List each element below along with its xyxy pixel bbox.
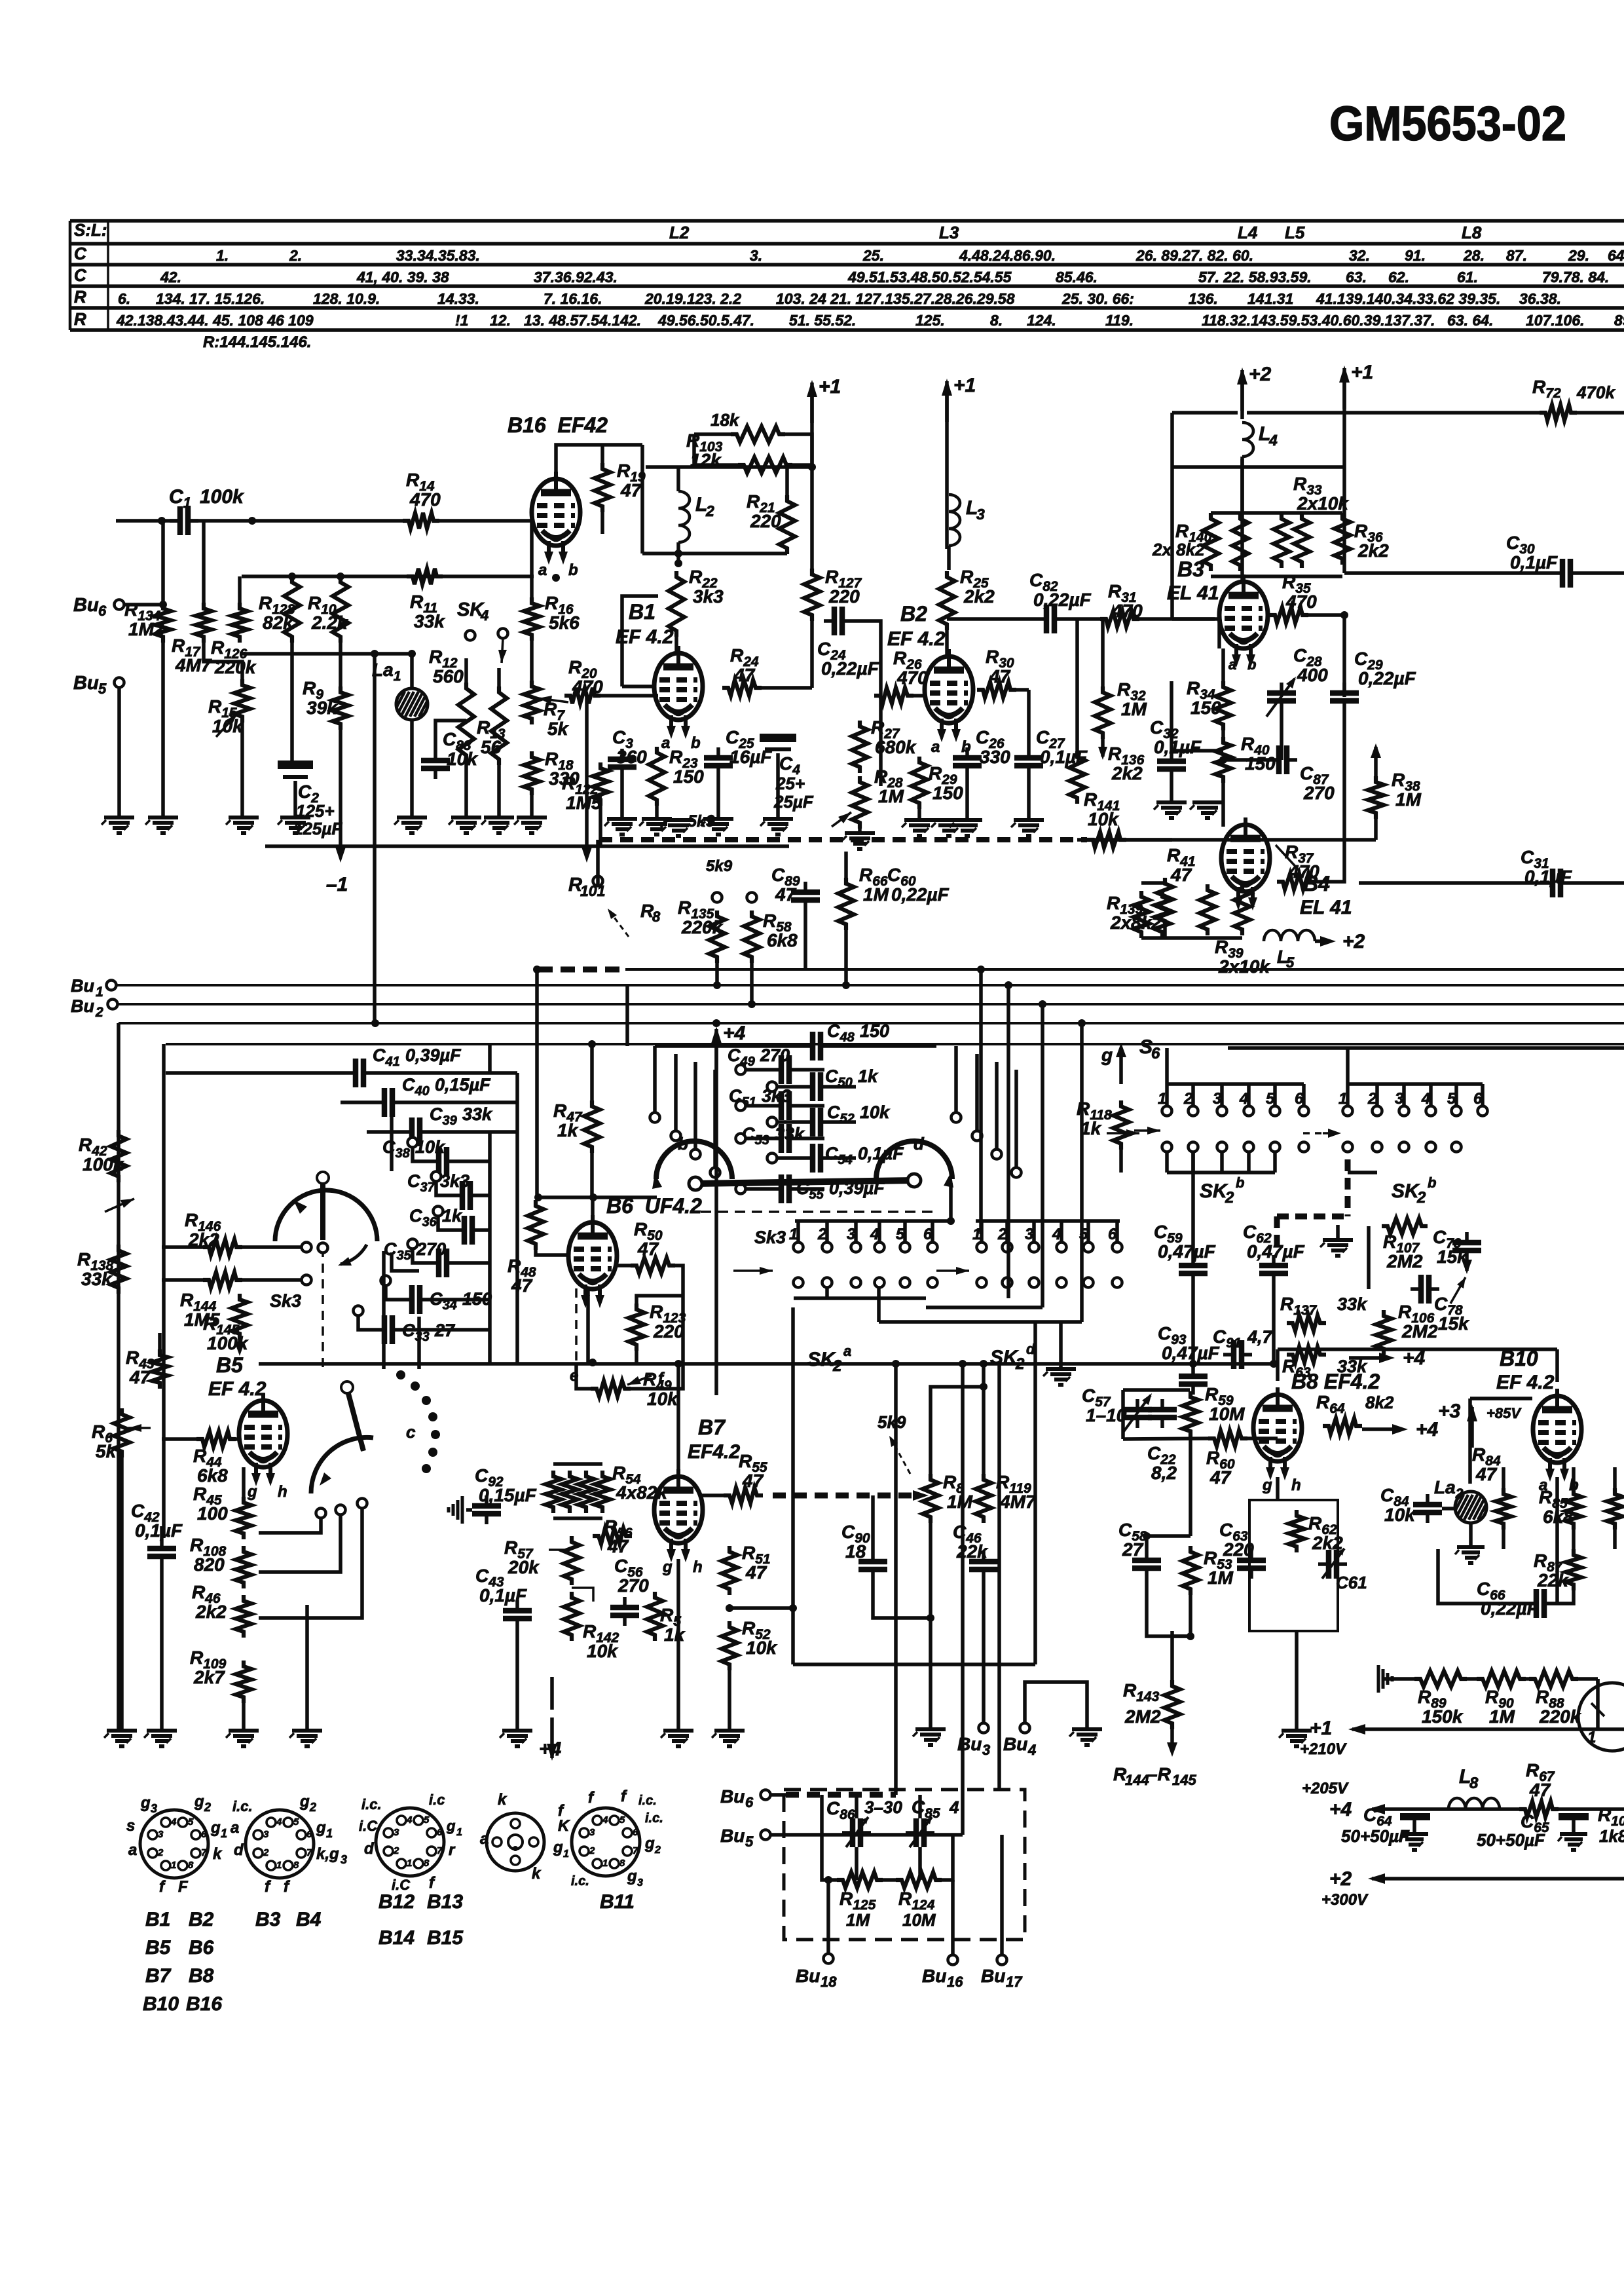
resistor R139a (1134, 891, 1149, 938)
power +1 rail (1348, 1724, 1477, 1735)
svg-text:3: 3 (637, 1877, 643, 1888)
svg-text:8,2: 8,2 (1151, 1463, 1177, 1483)
svg-text:107.106.: 107.106. (1526, 312, 1585, 329)
wire vert x1211 (791, 1307, 795, 1608)
svg-text:25+: 25+ (775, 774, 805, 793)
svg-text:0,47µF: 0,47µF (1158, 1241, 1216, 1262)
capacitor C85 (906, 1817, 934, 1847)
wire box v3 (855, 1795, 858, 1818)
svg-text:L4: L4 (1238, 223, 1258, 242)
tube B16 (532, 472, 580, 565)
resistor R17 (196, 603, 212, 643)
svg-text:+300V: +300V (1321, 1891, 1369, 1909)
svg-text:2k2: 2k2 (1111, 763, 1143, 783)
wire mid vertical x820 (535, 969, 539, 1197)
wire C90 top (871, 1495, 875, 1551)
contact SK2b lower-4 (1244, 1142, 1254, 1152)
svg-text:51. 55.52.: 51. 55.52. (789, 312, 856, 329)
svg-text:+4: +4 (723, 1023, 746, 1044)
svg-text:3: 3 (589, 1827, 595, 1838)
svg-text:1M: 1M (1395, 789, 1422, 810)
wire SK2b2 stub6 (1481, 1084, 1485, 1106)
svg-text:–R: –R (1147, 1764, 1172, 1784)
wire B6 g drop (575, 1288, 578, 1362)
junction C90 (927, 1614, 934, 1622)
ground (1399, 1834, 1428, 1850)
wire C42 v (160, 1526, 164, 1538)
wire R6 gnd (120, 1457, 124, 1731)
terminal Bu1 (107, 981, 117, 990)
svg-text:220k: 220k (1539, 1706, 1581, 1727)
svg-text:10M: 10M (902, 1910, 936, 1930)
svg-text:g: g (1101, 1045, 1113, 1065)
switch Sk3 arrow2 (338, 1245, 367, 1266)
svg-text:Bu: Bu (720, 1786, 745, 1807)
resistor R14 (403, 513, 439, 529)
wire rail205 r (1559, 1807, 1624, 1811)
svg-text:1k: 1k (557, 1120, 579, 1140)
wire bus top dashed-solid (625, 968, 1624, 971)
svg-text:1: 1 (1587, 1729, 1596, 1746)
socket diagram B12-B15 (376, 1808, 444, 1876)
tube B5 (239, 1393, 287, 1486)
svg-text:b: b (691, 734, 701, 752)
wire C54 left stub (777, 1156, 802, 1160)
wire B16 plate (556, 445, 642, 479)
wire R51-R52 to x1211 (729, 1606, 793, 1610)
wire C29 bot (1342, 711, 1346, 840)
svg-text:i.c.: i.c. (361, 1796, 382, 1812)
resistor R55 (724, 1488, 763, 1503)
ground (661, 820, 693, 836)
resistor R30 (977, 682, 1016, 698)
svg-text:360: 360 (616, 747, 647, 767)
selector arrow SK2d (936, 1267, 969, 1275)
wire C36 right (483, 1228, 490, 1232)
svg-text:3: 3 (158, 1829, 164, 1840)
wire R9 mid (339, 643, 342, 686)
svg-text:g: g (299, 1793, 310, 1811)
wire R103 right join (785, 434, 812, 467)
wire R85 mid (1572, 1530, 1576, 1549)
power +1 (1339, 362, 1373, 409)
wire R60 right (1247, 1436, 1278, 1440)
contact C50 (767, 1082, 777, 1092)
capacitor C39 (401, 1117, 430, 1146)
inductor L2 (678, 491, 690, 542)
junction R58 bus (748, 1000, 756, 1008)
wire C55 left stub (746, 1187, 771, 1191)
wire R16-R7 (530, 641, 534, 681)
resistor R123 (629, 1304, 644, 1351)
capacitor C91 (1223, 1340, 1252, 1369)
wire L2 top (676, 467, 680, 491)
svg-text:B15: B15 (427, 1927, 464, 1949)
svg-text:1: 1 (563, 1849, 569, 1860)
resistor R36 (1335, 513, 1350, 565)
svg-text:EL 41: EL 41 (1167, 582, 1219, 604)
svg-text:36.38.: 36.38. (1519, 290, 1561, 307)
wire SK2b stub1 (1165, 1084, 1169, 1106)
svg-text:150k: 150k (1422, 1706, 1464, 1727)
wire SK2b ldrop1 (1191, 1152, 1195, 1173)
svg-text:10k: 10k (1384, 1505, 1416, 1525)
power +1 (807, 376, 841, 423)
resistor R64 (1323, 1418, 1362, 1434)
wire R23 gnd (655, 806, 659, 819)
wire bank2 rail r (831, 1044, 936, 1048)
wire vert x1862 B3grid (1217, 619, 1221, 648)
wire B6 anode bus (535, 1195, 657, 1199)
svg-text:3: 3 (982, 1742, 990, 1758)
svg-text:g: g (446, 1818, 456, 1834)
ground R38 arrow up (1371, 743, 1381, 758)
tube B1 (654, 646, 703, 739)
power +3 (1438, 1400, 1477, 1448)
svg-text:2: 2 (705, 502, 714, 519)
wire R18 gnd (530, 795, 534, 816)
svg-text:0,22µF: 0,22µF (821, 658, 879, 679)
wire C41 right (374, 1071, 517, 1075)
wire R17 col (202, 521, 206, 603)
resistor R10 (333, 576, 348, 643)
capacitor C48 (802, 1032, 831, 1061)
svg-text:470k: 470k (1576, 383, 1615, 402)
ground (1154, 802, 1187, 818)
wire C62 d (1272, 1284, 1276, 1364)
resistor R90 (1477, 1671, 1526, 1687)
capacitor C62 (1259, 1255, 1288, 1284)
inductor L8 (1449, 1798, 1500, 1809)
wire C4 gnd (776, 753, 780, 819)
resistor R139b (1154, 891, 1170, 938)
svg-text:6k8: 6k8 (197, 1465, 228, 1486)
wire R cluster bot (1211, 574, 1342, 578)
resistor R144 (203, 1272, 242, 1288)
wire R44 r (236, 1437, 239, 1441)
svg-text:L8: L8 (1462, 223, 1482, 242)
capacitor C30 (1552, 559, 1581, 588)
svg-text:8: 8 (652, 909, 661, 925)
wire SK2a stub 3 (854, 1221, 858, 1242)
wire +1 drop r (1342, 379, 1346, 573)
resistor R33b (1294, 513, 1310, 568)
wire R47 top (590, 1044, 594, 1100)
wire SK2b ldrop2 (1220, 1152, 1224, 1173)
contact SK2a lower-4 (875, 1278, 885, 1288)
terminal Bu2 (108, 1000, 118, 1009)
svg-text:470: 470 (572, 677, 603, 697)
svg-text:+2: +2 (1329, 1868, 1352, 1890)
wire SK2a stub 4 (877, 1221, 881, 1242)
capacitor C40 (374, 1088, 403, 1117)
svg-text:Bu: Bu (1003, 1734, 1027, 1754)
contact SK2d lower-1 (977, 1278, 987, 1288)
svg-text:20.19.123. 2.2: 20.19.123. 2.2 (644, 290, 741, 307)
svg-text:Sk3: Sk3 (270, 1291, 301, 1311)
junction Bu18 (824, 1876, 832, 1884)
wire chain m2 (1526, 1677, 1529, 1681)
capacitor C78a (1411, 1275, 1439, 1304)
wire C37 right (481, 1193, 490, 1197)
wire SK2b lower rail (1167, 1171, 1275, 1174)
wire R divider top (242, 1467, 246, 1497)
resistor R134 (155, 603, 171, 643)
svg-text:i.c: i.c (429, 1792, 445, 1808)
svg-text:k: k (532, 1865, 542, 1883)
wire bus y998 (240, 652, 412, 656)
wire dashed link bus (538, 967, 625, 973)
terminal sk (712, 893, 722, 903)
junction c87 (1219, 756, 1227, 764)
svg-text:47: 47 (637, 1239, 659, 1259)
wire C53 left stub (746, 1136, 771, 1140)
wire R103 left (694, 432, 731, 436)
svg-text:a: a (231, 1819, 239, 1837)
wire SK2 lower rail b (926, 1305, 1043, 1309)
svg-text:g: g (194, 1793, 204, 1811)
svg-text:5: 5 (619, 1814, 625, 1826)
wire sk9 dash2 (773, 1493, 917, 1499)
wire R19 top (600, 445, 604, 463)
wire R128 to C2 (290, 643, 294, 764)
svg-text:47: 47 (745, 1562, 767, 1583)
contact SK2b2 lower-4 (1426, 1142, 1436, 1152)
wire SK2a stub 5 (903, 1221, 907, 1242)
power -1 arrow (335, 847, 346, 863)
junction box up2 (959, 1360, 967, 1368)
wire b6 g down (382, 1251, 386, 1369)
wire heavy dash v2 (1274, 1216, 1280, 1252)
svg-text:1: 1 (602, 1858, 608, 1869)
ground (604, 819, 637, 835)
svg-text:g: g (553, 1839, 563, 1856)
svg-text:15k: 15k (1438, 1313, 1469, 1334)
svg-text:25.: 25. (862, 247, 884, 264)
wire gnd drop SK2 (1059, 1322, 1063, 1368)
wire R103 vert left (694, 434, 738, 465)
svg-text:1M: 1M (878, 786, 904, 806)
svg-text:125+: 125+ (296, 801, 335, 821)
svg-text:i.c.: i.c. (645, 1811, 663, 1826)
capacitor C53 (771, 1124, 800, 1153)
power +2 arrow (1315, 936, 1336, 947)
contact C33 (354, 1306, 363, 1316)
svg-text:2: 2 (95, 1005, 103, 1020)
wire R12 gnd (464, 761, 468, 816)
resistor R72 (1540, 405, 1577, 421)
terminal SK4 a (466, 631, 475, 641)
contact SK2b2 lower-1 (1343, 1142, 1353, 1152)
svg-text:1M: 1M (947, 1492, 973, 1512)
svg-text:5k9: 5k9 (688, 812, 715, 831)
wire mid x958 vert (625, 985, 629, 1046)
svg-text:3: 3 (341, 1853, 347, 1866)
wire vert R135 gnd (715, 963, 719, 985)
power R101 arrow (581, 847, 592, 863)
contact C37 (432, 1172, 441, 1182)
wire vert x1592 (1041, 1004, 1044, 1307)
capacitor C26 (953, 747, 982, 776)
contact SK2b2 lower-5 (1452, 1142, 1462, 1152)
svg-text:s: s (126, 1817, 135, 1835)
wire C52 right stub (831, 1120, 856, 1124)
terminal Sk9 (593, 876, 603, 886)
svg-text:270: 270 (760, 1045, 790, 1065)
svg-text:64.: 64. (1608, 247, 1624, 264)
wire gnd bu4 (1085, 1719, 1089, 1728)
svg-text:136.: 136. (1189, 290, 1218, 307)
junction Bu6 (159, 601, 167, 609)
svg-text:5: 5 (745, 1833, 754, 1850)
wire R28 gnd (858, 829, 862, 832)
junction C93 bus (1189, 1360, 1197, 1368)
wire SK2b2 lower rail (1348, 1171, 1377, 1174)
svg-text:33k: 33k (1337, 1294, 1368, 1314)
capacitor C49 (771, 1055, 800, 1084)
wire Bu6 into box (770, 1793, 786, 1797)
svg-text:2: 2 (589, 1845, 595, 1856)
capacitor C35 (428, 1248, 457, 1277)
selector arrow SK2b2 (1303, 1129, 1341, 1138)
wire R84 bot (1502, 1530, 1505, 1549)
wire vert R34 (1221, 648, 1225, 681)
svg-text:+210V: +210V (1300, 1740, 1347, 1758)
svg-text:47: 47 (742, 1471, 764, 1491)
wire C57 box left (1121, 1390, 1125, 1439)
svg-text:1–10: 1–10 (1086, 1405, 1127, 1425)
wire C32 gnd (1170, 779, 1173, 802)
wire C51 right stub (800, 1104, 824, 1108)
ground (931, 820, 964, 836)
wire top right rail2 (1247, 411, 1540, 415)
wire R29 gnd (917, 809, 921, 819)
svg-text:32.: 32. (1349, 247, 1370, 264)
svg-text:2M2: 2M2 (1401, 1321, 1438, 1342)
wire B8 top (1276, 1349, 1280, 1381)
svg-text:47: 47 (129, 1367, 151, 1387)
wire C30 out (1581, 571, 1624, 575)
contact C52 (767, 1117, 777, 1127)
wire SK2 lower rail (794, 1296, 926, 1300)
svg-text:EF 4.2: EF 4.2 (887, 628, 946, 650)
contact col r0 (951, 1113, 961, 1123)
wire C66 right (1555, 1590, 1574, 1604)
resistor R7 (524, 681, 540, 724)
contact C49 (736, 1065, 746, 1075)
svg-text:18: 18 (845, 1541, 866, 1562)
wire B6 cath drop (586, 1288, 590, 1362)
svg-text:d: d (1026, 1341, 1035, 1357)
wire R122 down (599, 806, 602, 846)
resistor R19 (595, 463, 610, 512)
svg-text:B3: B3 (1177, 557, 1204, 581)
wire SK2b2 stub1 (1346, 1084, 1350, 1106)
svg-text:R: R (74, 309, 86, 329)
contact R144 (302, 1275, 312, 1285)
wire C38 left elbow (413, 1147, 428, 1161)
svg-text:0,22µF: 0,22µF (1033, 590, 1092, 610)
wire C26 gnd (965, 776, 969, 819)
wire C64 gnd (1412, 1820, 1416, 1833)
wire box v2 (883, 1878, 896, 1882)
svg-text:7: 7 (306, 1847, 312, 1858)
svg-text:1k8: 1k8 (1599, 1826, 1624, 1846)
svg-text:8: 8 (1469, 1774, 1479, 1792)
wire R cluster top (1211, 511, 1342, 515)
svg-text:i.c.: i.c. (571, 1874, 589, 1888)
wire SK2a stub 6 (931, 1221, 934, 1242)
wire contact b (259, 1515, 341, 1572)
svg-text:3.: 3. (750, 247, 762, 264)
wire B10 cath down (1555, 1477, 1559, 1604)
svg-text:150: 150 (1245, 753, 1276, 774)
svg-text:2k2: 2k2 (963, 586, 995, 607)
wire R123 top (637, 1296, 683, 1304)
resistor R57 (564, 1536, 580, 1585)
svg-text:330: 330 (980, 747, 1010, 767)
svg-text:L5: L5 (1285, 223, 1305, 242)
resistor R136 (1069, 751, 1085, 804)
svg-text:4: 4 (1421, 1090, 1430, 1108)
ground R32 arrow (1098, 747, 1107, 760)
wire left trunk (117, 1023, 120, 1729)
svg-text:8: 8 (293, 1860, 299, 1871)
svg-text:B10: B10 (143, 1993, 179, 2015)
wire R146 r (242, 1245, 301, 1249)
power +2 (1237, 364, 1272, 411)
wire R9 down (339, 730, 342, 852)
terminal sk2 (747, 893, 757, 903)
resistor R25 (939, 571, 955, 630)
wire vert C89 (803, 910, 807, 969)
capacitor C55 (771, 1174, 800, 1203)
wire R118 v (1119, 1150, 1123, 1173)
wire C35 left elbow (413, 1248, 428, 1263)
resistor R109 (236, 1661, 251, 1703)
svg-text:5k9: 5k9 (877, 1412, 906, 1432)
wire B7 cath gnd (676, 1559, 680, 1731)
table row C (1) (216, 247, 1624, 264)
contact col 0 (650, 1113, 660, 1123)
wire C51 left stub (746, 1104, 771, 1108)
junction box up1 (892, 1360, 900, 1368)
svg-text:49.56.50.5.47.: 49.56.50.5.47. (657, 312, 754, 329)
capacitor C57 arrow (1122, 1393, 1152, 1433)
svg-text:+4: +4 (539, 1738, 562, 1760)
wire chain l (1383, 1677, 1414, 1681)
capacitor C27 (1014, 747, 1043, 776)
resistor R67 (1519, 1801, 1559, 1817)
capacitor C28 arrow (1266, 677, 1296, 717)
svg-text:2x8k2: 2x8k2 (1110, 912, 1162, 933)
svg-text:7: 7 (201, 1847, 207, 1858)
wire R49 l (576, 1362, 591, 1389)
svg-text:50+50µF: 50+50µF (1341, 1826, 1410, 1846)
svg-text:220: 220 (828, 586, 860, 607)
label sk9 arrow (889, 1436, 910, 1474)
contact C34 (381, 1276, 391, 1286)
terminal Bu16 (948, 1955, 958, 1965)
ground C92 side (449, 1496, 462, 1524)
svg-text:13. 48.57.54.142.: 13. 48.57.54.142. (524, 312, 641, 329)
resistor R40 (1215, 737, 1231, 783)
svg-text:2: 2 (1225, 1189, 1234, 1207)
lamp La2 (1450, 1492, 1491, 1523)
wire C84 link (1442, 1507, 1455, 1511)
junction C62 bus (1270, 1360, 1278, 1368)
contact SK2b2 lower-3 (1399, 1142, 1409, 1152)
